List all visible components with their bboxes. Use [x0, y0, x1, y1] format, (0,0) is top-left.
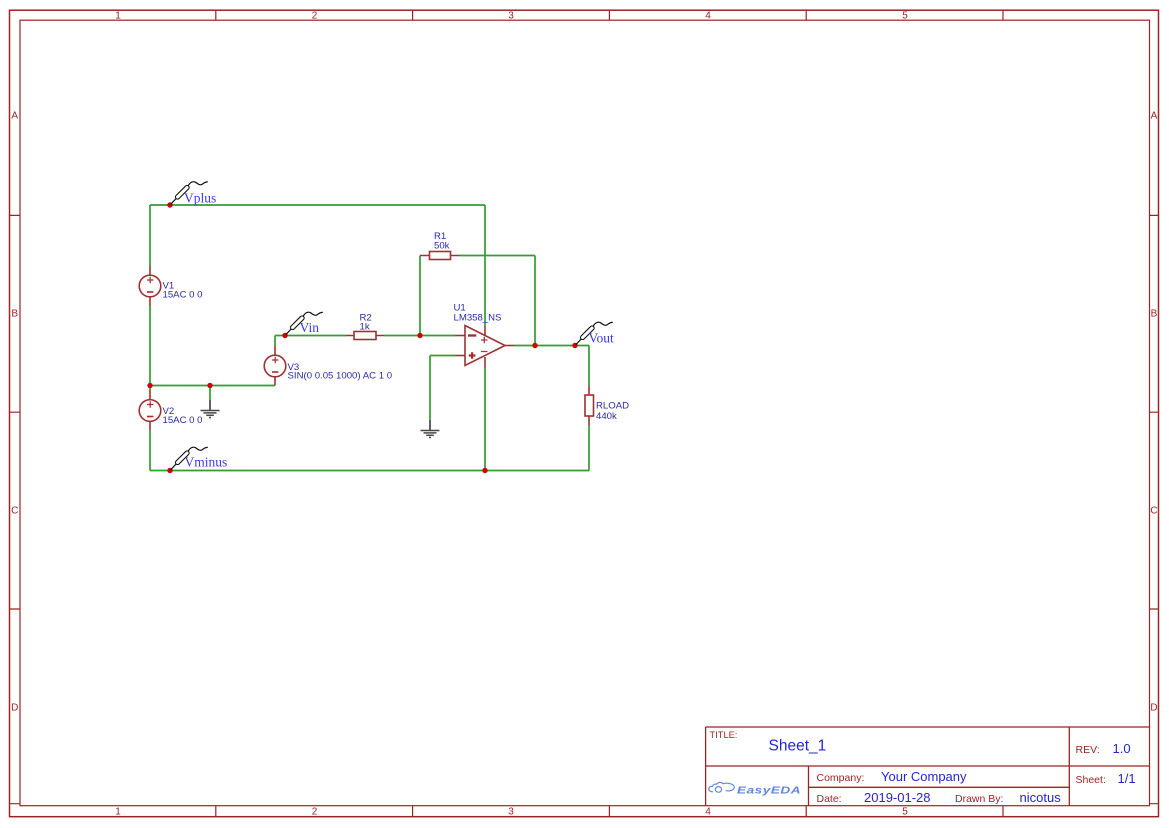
wire Vin to R2 — [275, 335, 346, 337]
wire ground2 drop — [429, 356, 431, 421]
wire Vplus drop to op-amp V+ — [484, 205, 486, 326]
svg-text:50k: 50k — [434, 241, 450, 252]
junction dot inverting node — [417, 333, 422, 338]
svg-text:B: B — [1151, 309, 1158, 320]
svg-text:Date:: Date: — [817, 793, 842, 805]
svg-text:C: C — [1150, 506, 1157, 517]
resistor R1 — [420, 231, 460, 260]
junction dot ground1 node — [207, 383, 212, 388]
probe flag Vin — [286, 312, 323, 335]
svg-text:Vminus: Vminus — [185, 455, 228, 470]
junction dot node Vin — [282, 333, 287, 338]
junction dot node Vout — [572, 343, 577, 348]
svg-text:4: 4 — [705, 10, 711, 21]
svg-text:SIN(0 0.05 1000) AC 1 0: SIN(0 0.05 1000) AC 1 0 — [288, 370, 393, 381]
svg-text:nicotus: nicotus — [1020, 790, 1062, 805]
wire R2 to inverting node — [384, 335, 456, 337]
svg-text:15AC 0 0: 15AC 0 0 — [163, 290, 203, 301]
svg-text:1k: 1k — [360, 321, 370, 332]
voltage source V3 — [264, 346, 392, 386]
svg-text:Vin: Vin — [300, 320, 320, 335]
wire op-amp V- to bottom rail — [484, 368, 486, 471]
wire ground1 stub — [209, 386, 211, 401]
svg-text:D: D — [1150, 703, 1157, 714]
svg-text:3: 3 — [508, 10, 514, 21]
wire bottom Vminus rail — [150, 470, 589, 472]
junction dot output node — [532, 343, 537, 348]
svg-text:REV:: REV: — [1076, 744, 1100, 756]
svg-text:Drawn By:: Drawn By: — [955, 793, 1003, 805]
probe flag Vout — [576, 322, 614, 345]
wire non-inverting input — [430, 355, 456, 357]
svg-text:15AC 0 0: 15AC 0 0 — [163, 415, 203, 426]
voltage source V2 — [139, 390, 202, 431]
svg-text:1: 1 — [115, 807, 121, 818]
svg-text:Sheet_1: Sheet_1 — [769, 738, 827, 755]
wire V2 to bottom rail — [149, 431, 151, 471]
svg-text:C: C — [11, 506, 18, 517]
svg-text:RLOAD: RLOAD — [596, 401, 629, 412]
svg-text:LM358_NS: LM358_NS — [454, 313, 502, 324]
svg-text:3: 3 — [508, 807, 514, 818]
svg-text:Vout: Vout — [589, 330, 615, 345]
svg-text:D: D — [11, 703, 18, 714]
wire Vout down to RLOAD — [588, 346, 590, 386]
resistor R2 — [346, 313, 384, 340]
wire R1 right — [460, 255, 536, 257]
svg-text:4: 4 — [705, 807, 711, 818]
svg-text:1: 1 — [115, 10, 121, 21]
junction dot V- rail node — [482, 468, 487, 473]
wire top Vplus rail — [150, 204, 485, 206]
svg-text:2: 2 — [312, 807, 318, 818]
svg-text:Company:: Company: — [817, 772, 865, 784]
EasyEDA logo — [709, 782, 801, 795]
junction dot node Vminus — [167, 468, 172, 473]
svg-text:Your Company: Your Company — [881, 769, 967, 784]
op-amp U1 — [454, 303, 515, 368]
svg-text:A: A — [1151, 111, 1158, 122]
wire mid rail — [150, 385, 275, 387]
svg-text:440k: 440k — [596, 411, 617, 422]
probe flag Vplus — [171, 182, 216, 206]
wire left rail top — [149, 205, 151, 266]
svg-text:5: 5 — [902, 807, 908, 818]
wire R1 left drop — [419, 256, 421, 336]
ground 1 — [201, 400, 220, 418]
svg-text:1.0: 1.0 — [1113, 741, 1131, 756]
wire V3 up — [274, 336, 276, 347]
svg-text:5: 5 — [902, 10, 908, 21]
svg-text:2: 2 — [312, 10, 318, 21]
svg-text:A: A — [11, 111, 18, 122]
svg-text:B: B — [11, 309, 18, 320]
wire R1 right drop to output — [534, 256, 536, 346]
wire output to Vout — [514, 345, 589, 347]
svg-text:Sheet:: Sheet: — [1076, 774, 1106, 786]
svg-text:2019-01-28: 2019-01-28 — [864, 790, 931, 805]
svg-text:Vplus: Vplus — [184, 190, 216, 205]
title block — [706, 727, 1150, 806]
svg-text:1/1: 1/1 — [1118, 771, 1136, 786]
probe flag Vminus — [171, 447, 227, 470]
svg-text:EasyEDA: EasyEDA — [737, 784, 801, 796]
junction dot V1-V2 node — [147, 383, 152, 388]
wire RLOAD to bottom rail — [588, 426, 590, 471]
svg-text:TITLE:: TITLE: — [710, 730, 738, 740]
voltage source V1 — [139, 266, 202, 306]
ground 2 — [421, 420, 440, 438]
resistor RLOAD — [585, 386, 629, 426]
wire V1 to V2 — [149, 306, 151, 390]
junction dot node Vplus — [167, 202, 172, 207]
